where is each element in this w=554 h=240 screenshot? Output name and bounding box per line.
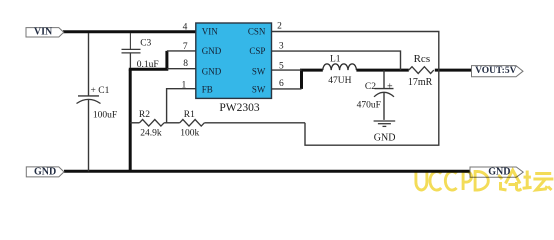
svg-text:GND: GND <box>202 46 222 56</box>
svg-text:3: 3 <box>279 41 284 51</box>
svg-text:R2: R2 <box>139 110 150 120</box>
svg-text:8: 8 <box>183 59 188 69</box>
svg-text:470uF: 470uF <box>357 101 381 111</box>
svg-text:L1: L1 <box>330 55 341 65</box>
svg-text:GND: GND <box>34 167 56 178</box>
svg-text:+: + <box>387 82 393 93</box>
svg-text:VOUT:5V: VOUT:5V <box>475 66 516 76</box>
svg-text:2: 2 <box>277 22 282 32</box>
svg-text:SW: SW <box>252 84 266 94</box>
svg-text:1: 1 <box>181 80 186 90</box>
svg-text:CSN: CSN <box>248 26 266 36</box>
svg-text:6: 6 <box>279 79 284 89</box>
svg-text:VIN: VIN <box>34 27 53 38</box>
svg-text:GND: GND <box>374 132 396 143</box>
svg-text:C3: C3 <box>140 38 151 48</box>
svg-text:100uF: 100uF <box>93 110 117 120</box>
svg-text:5: 5 <box>279 61 284 71</box>
svg-text:SW: SW <box>252 66 266 76</box>
svg-text:4: 4 <box>183 23 188 33</box>
svg-text:R1: R1 <box>184 110 195 120</box>
svg-text:0.1uF: 0.1uF <box>137 60 159 70</box>
svg-text:+ C1: + C1 <box>91 86 110 96</box>
svg-text:VIN: VIN <box>202 26 218 36</box>
svg-text:C2: C2 <box>365 82 376 92</box>
svg-text:Rcs: Rcs <box>414 53 431 65</box>
svg-text:CSP: CSP <box>249 46 265 56</box>
svg-text:FB: FB <box>202 84 213 94</box>
svg-text:GND: GND <box>202 66 222 76</box>
svg-text:17mR: 17mR <box>408 77 433 88</box>
svg-text:24.9k: 24.9k <box>140 129 162 139</box>
svg-text:7: 7 <box>183 42 188 52</box>
svg-text:47UH: 47UH <box>328 76 351 86</box>
svg-text:PW2303: PW2303 <box>219 102 260 114</box>
svg-text:100k: 100k <box>180 129 199 139</box>
